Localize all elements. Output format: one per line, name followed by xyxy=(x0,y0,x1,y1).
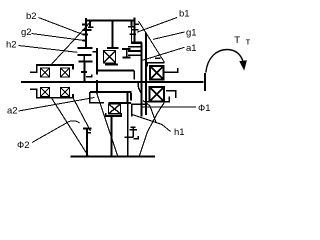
right assembly top bracket xyxy=(147,63,164,67)
brake b2 tick C2 xyxy=(83,33,89,35)
ring gear box RT xyxy=(150,66,164,80)
drum strut to base xyxy=(51,98,88,156)
brake b1 frame stub xyxy=(131,22,133,28)
sun a2 element stem xyxy=(83,55,85,62)
carrier strut left xyxy=(73,98,91,131)
right drum vertical V1 xyxy=(141,43,143,117)
leader f1 xyxy=(142,106,197,108)
base line xyxy=(71,155,156,157)
svg-text:g2: g2 xyxy=(21,27,32,38)
shaft stub right of axis xyxy=(137,83,139,87)
right drum vertical V2 xyxy=(145,33,147,115)
left drum vertical wall xyxy=(96,48,98,75)
svg-text:h1: h1 xyxy=(174,127,185,138)
leader f2 xyxy=(32,121,80,143)
clutch disc box LB1 xyxy=(41,88,50,97)
sun a2 clutch element bar 2 xyxy=(77,54,91,56)
brake b2 tick C xyxy=(83,29,92,31)
svg-text:a1: a1 xyxy=(186,43,197,54)
carrier strut right 1 xyxy=(140,102,165,156)
RB right bracket xyxy=(166,91,176,98)
sun a2 clutch element bar 3 xyxy=(79,61,93,63)
leader b2 xyxy=(39,18,83,35)
svg-text:a2: a2 xyxy=(7,106,18,117)
brake b1 tick C2 xyxy=(129,33,136,35)
housing top bar xyxy=(87,19,134,21)
left brake tick xyxy=(88,132,91,134)
RT right bracket xyxy=(164,68,178,72)
leader a2 xyxy=(19,98,95,112)
b2 drum cone diagonal xyxy=(51,22,91,65)
brake b2 frame tick B xyxy=(88,26,94,28)
torque arc arrow xyxy=(206,50,243,73)
svg-text:h2: h2 xyxy=(6,40,17,51)
svg-text:b2: b2 xyxy=(26,11,37,22)
carrier shaft h2 xyxy=(90,91,132,93)
brake b1 frame tick B xyxy=(128,26,134,28)
ring gear box RB xyxy=(150,87,165,102)
sun a2 hub stem xyxy=(84,62,86,82)
brake b1 tick C xyxy=(131,29,139,31)
h2 shaft right stub xyxy=(130,93,132,101)
clutch pack top bracket xyxy=(30,65,73,72)
brake b2 drum vertical xyxy=(85,18,87,48)
clutch stem to base xyxy=(127,103,129,156)
svg-text:т: т xyxy=(246,37,251,48)
brake b2 frame stub xyxy=(89,22,91,28)
pinion I stem xyxy=(126,49,128,57)
right brake member stem xyxy=(132,127,134,138)
gear bar 4 xyxy=(128,54,141,56)
main shaft center line xyxy=(21,81,204,83)
right assembly inner bar xyxy=(155,57,160,59)
leader h1 xyxy=(132,115,171,132)
svg-text:Ф1: Ф1 xyxy=(198,103,211,114)
right brake tick xyxy=(131,126,136,128)
carrier bar end vertical xyxy=(133,70,135,79)
clutch T stem xyxy=(127,93,129,103)
hub small bar xyxy=(86,76,93,78)
ring drum bottom bracket xyxy=(132,104,146,116)
pinion I bottom xyxy=(122,56,130,58)
svg-text:b1: b1 xyxy=(179,9,190,20)
sun a2 clutch element bar 1 xyxy=(77,47,92,49)
brake b2 tick A xyxy=(82,23,88,25)
SB1 stub from housing xyxy=(112,22,114,48)
left brake bar xyxy=(83,128,92,130)
gear bar 2 xyxy=(128,46,141,48)
clutch T bar over SB2 xyxy=(108,102,131,104)
gear bar 1 xyxy=(131,42,142,44)
clutch disc box LT2 xyxy=(61,68,70,77)
hub small vert xyxy=(91,74,93,76)
svg-text:Ф2: Ф2 xyxy=(17,140,30,151)
right ground bar xyxy=(125,136,134,138)
svg-text:g1: g1 xyxy=(186,28,197,39)
SB1 top bar xyxy=(107,47,119,49)
carrier strut left-2 xyxy=(97,94,118,156)
clutch pack bottom bracket xyxy=(30,89,73,98)
right brake bar xyxy=(129,129,137,131)
leader h2 xyxy=(19,46,78,53)
leader b1 xyxy=(137,18,177,33)
left drum top tick xyxy=(92,51,97,53)
SB2 bottom bar xyxy=(106,113,121,116)
leader a1 xyxy=(143,47,185,60)
b1 drum cone diagonal xyxy=(139,21,165,62)
brake b1 drum vertical xyxy=(134,18,136,43)
stub connector diagonal xyxy=(138,87,142,95)
hub collar tick xyxy=(81,71,87,73)
carrier strut right 2 xyxy=(143,101,156,123)
SB1 bracket xyxy=(105,63,118,65)
gear bar 3 xyxy=(128,50,141,52)
right assembly bottom bracket xyxy=(147,96,169,102)
clutch disc box LT1 xyxy=(41,68,50,77)
leader g2 xyxy=(32,34,83,41)
center stem to base xyxy=(111,116,113,156)
brake b1 inner vertical xyxy=(131,27,133,43)
gear box SB2 xyxy=(109,104,121,114)
svg-text:Т: Т xyxy=(234,35,240,46)
left ground stem xyxy=(86,129,88,156)
carrier bar over axis xyxy=(97,69,134,71)
clutch disc box LB2 xyxy=(61,88,70,97)
input shaft flange xyxy=(204,73,206,91)
brake b2 tick D xyxy=(83,39,87,41)
brake b1 tick A xyxy=(135,23,140,25)
right ground hook xyxy=(134,136,139,139)
leader g1 xyxy=(153,32,185,39)
left drum wall lower xyxy=(96,80,98,94)
h2 shaft left hook xyxy=(90,92,104,102)
gear box SB1 xyxy=(104,51,116,64)
pinion I top xyxy=(122,48,131,50)
